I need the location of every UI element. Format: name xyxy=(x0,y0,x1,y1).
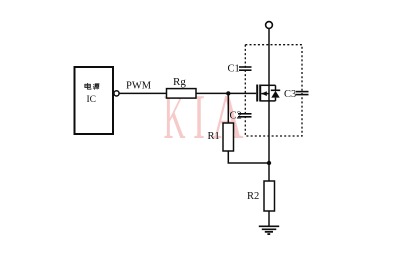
wire PWM output to Rg xyxy=(119,92,166,94)
power IC U1 xyxy=(75,67,114,134)
terminal circle (drain, top) xyxy=(266,22,273,29)
wire R1 bottom to source node xyxy=(228,151,269,163)
svg-text:IC: IC xyxy=(87,95,97,105)
capacitor C1 (gate-drain) xyxy=(239,67,252,70)
node junction gate/R1 xyxy=(226,91,230,95)
capacitor C2 (gate-source) xyxy=(238,114,252,117)
transistor Q1 MOSFET gate bar xyxy=(256,85,258,102)
wire junction down to R1 xyxy=(227,93,229,123)
wire Rg to gate xyxy=(196,92,256,94)
svg-text:C1: C1 xyxy=(228,64,240,75)
transistor Q1 drain stub xyxy=(260,84,275,86)
svg-text:C3: C3 xyxy=(284,89,296,100)
ground xyxy=(259,226,279,234)
body diode of Q1 xyxy=(271,85,280,101)
watermark KIA xyxy=(164,81,244,153)
node junction source/R2 xyxy=(267,161,271,165)
dashed package outline xyxy=(245,45,302,136)
capacitor C3 (drain-source) xyxy=(296,92,309,95)
svg-text:PWM: PWM xyxy=(126,81,152,92)
wire drain vertical xyxy=(268,28,270,163)
svg-text:Rg: Rg xyxy=(173,76,186,88)
transistor Q1 source stub xyxy=(260,100,275,102)
label 电源 (power) glyphs xyxy=(85,83,100,90)
resistor R1 xyxy=(223,123,234,151)
resistor R2 xyxy=(264,181,275,211)
wire source node to R2 xyxy=(268,163,270,181)
svg-text:R2: R2 xyxy=(247,191,259,202)
svg-text:C2: C2 xyxy=(230,111,242,122)
wire R2 to ground xyxy=(268,211,270,226)
pin circle (PWM output) xyxy=(114,91,119,96)
transistor Q1 body arrow xyxy=(261,91,269,96)
resistor Rg xyxy=(167,89,197,99)
svg-text:R1: R1 xyxy=(208,131,220,142)
transistor Q1 channel bar xyxy=(259,85,261,102)
